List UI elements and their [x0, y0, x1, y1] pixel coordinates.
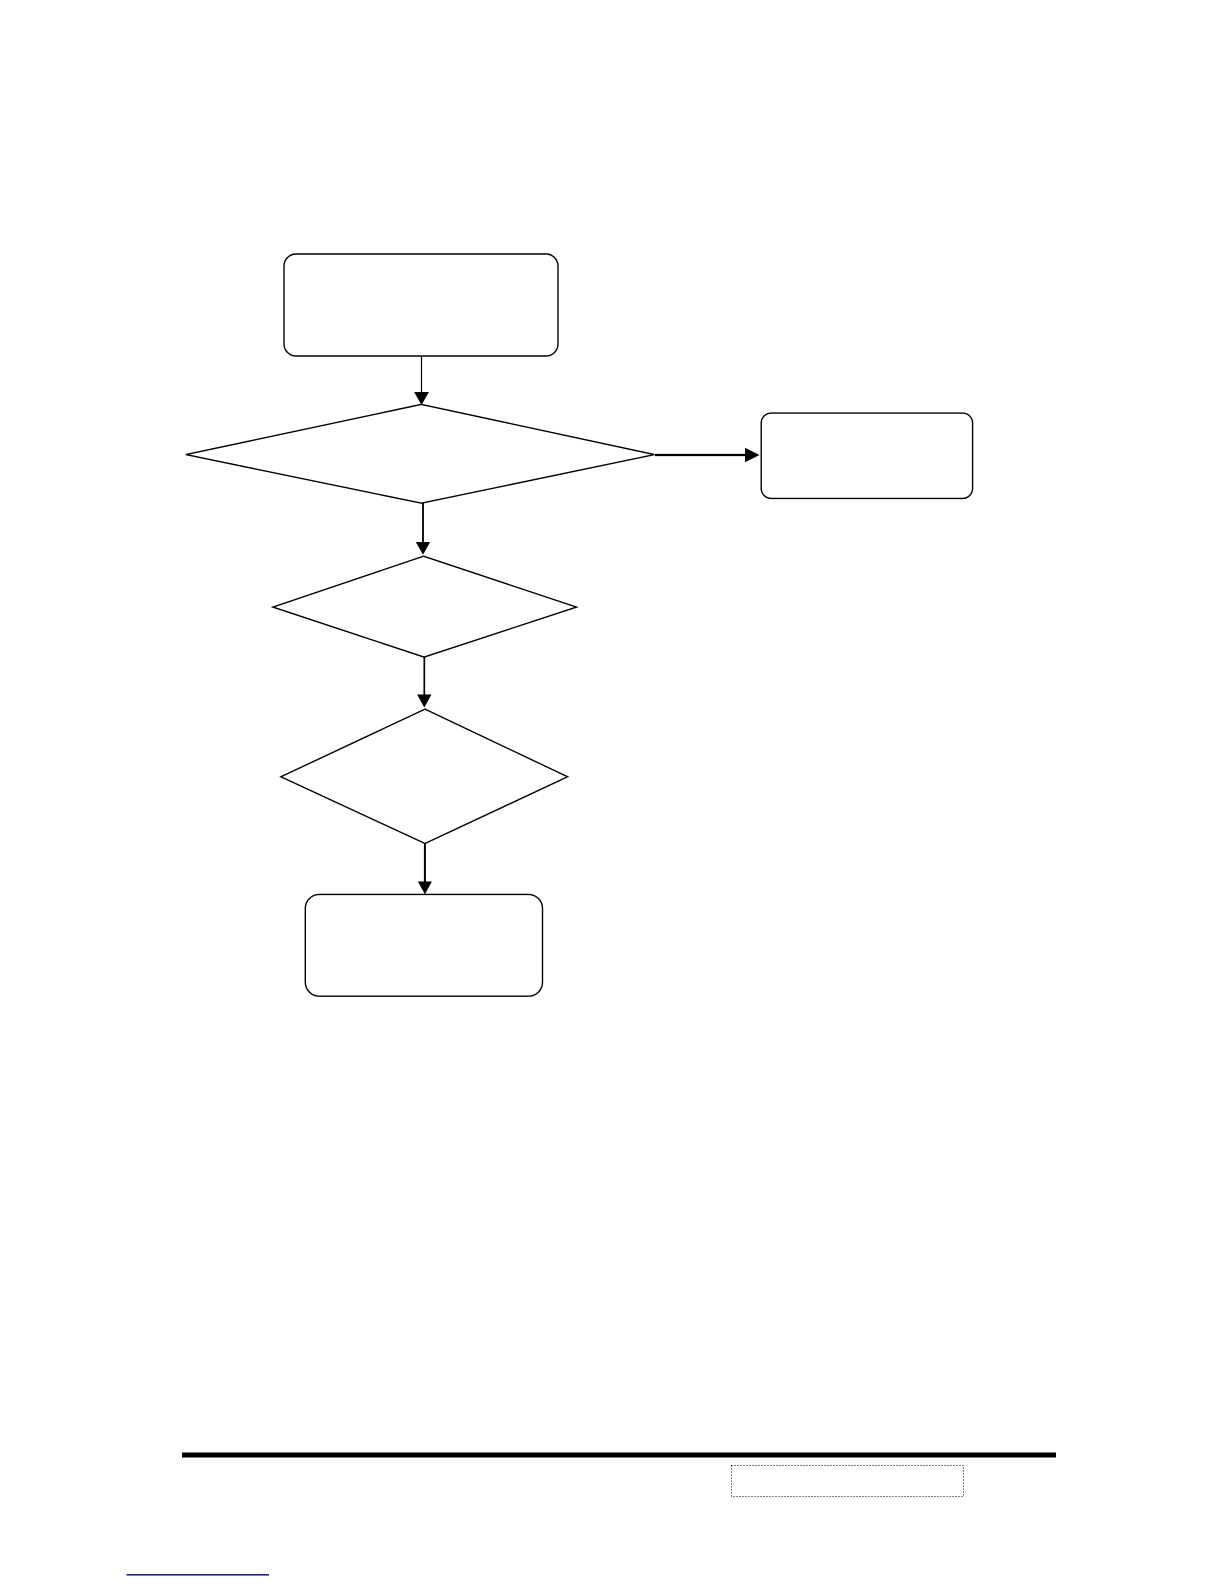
decision diamond D2: [273, 556, 577, 657]
process box B (right rounded rectangle): [761, 413, 972, 498]
footnote separator: short navy underline bottom-left: [127, 1574, 270, 1576]
wire: connector arrow from diamond D1 to diamond D2: [416, 504, 430, 555]
footer separator: thick horizontal rule: [182, 1453, 1056, 1458]
wire: connector arrow from diamond D3 to box C: [418, 844, 432, 894]
wire: connector arrow from box A to diamond D1: [414, 357, 429, 406]
wire: connector arrow from diamond D2 to diamond D3: [417, 658, 431, 708]
decision diamond D1: [186, 404, 655, 503]
wire: horizontal arrow from diamond D1 to box B: [655, 448, 760, 462]
decision diamond D3: [281, 709, 568, 843]
process box C (bottom rounded rectangle): [305, 894, 542, 996]
dotted field box in footer: [732, 1466, 964, 1497]
process box A (top rounded rectangle): [284, 254, 558, 356]
